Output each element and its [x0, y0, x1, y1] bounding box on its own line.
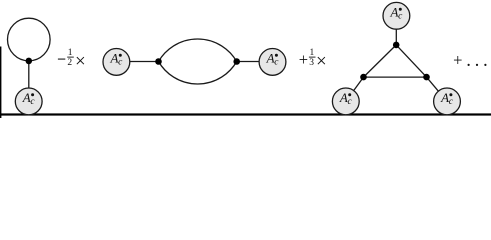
node A_c (tadpole bottom) — [15, 88, 42, 115]
label: minus one half times — [58, 48, 86, 72]
svg-text:×: × — [316, 51, 327, 72]
vertex dot: bubble left — [155, 58, 162, 65]
wire: bubble left leg — [116, 61, 158, 63]
svg-text:×: × — [75, 51, 86, 72]
svg-text:2: 2 — [67, 58, 72, 68]
node A_c (triangle bottom-left) — [332, 88, 359, 115]
label: plus one third times — [299, 48, 327, 72]
node A_c (triangle top) — [383, 2, 410, 29]
vertex dot: triangle bottom-right — [423, 74, 430, 81]
wire: tadpole stem — [28, 61, 30, 101]
node A_c (triangle bottom-right) — [434, 88, 461, 115]
vertex dot: triangle bottom-left — [360, 74, 367, 81]
svg-text:3: 3 — [309, 58, 314, 68]
vertex dot: triangle apex — [393, 42, 400, 49]
wire: triangle right side — [396, 45, 426, 77]
left vertical rule fragment — [0, 47, 1, 119]
svg-text:+: + — [299, 50, 308, 69]
wire: triangle left side — [364, 45, 397, 77]
vertex dot: tadpole — [26, 58, 33, 65]
wire: triangle top stem — [395, 30, 397, 45]
wire: bubble right leg — [237, 61, 273, 63]
svg-text:+: + — [453, 50, 462, 69]
wire: bubble lower arc — [159, 62, 237, 85]
wire: tadpole loop circle — [8, 18, 51, 61]
label: plus ellipsis — [453, 50, 486, 69]
node A_c (bubble right) — [259, 49, 286, 76]
bottom horizontal rule — [0, 113, 491, 115]
wire: leg to bottom-right node — [427, 77, 448, 101]
wire: leg to bottom-left node — [346, 77, 364, 101]
wire: bubble upper arc — [159, 39, 237, 62]
node A_c (bubble left) — [103, 49, 130, 76]
vertex dot: bubble right — [233, 58, 240, 65]
wire: triangle bottom side — [364, 76, 427, 78]
